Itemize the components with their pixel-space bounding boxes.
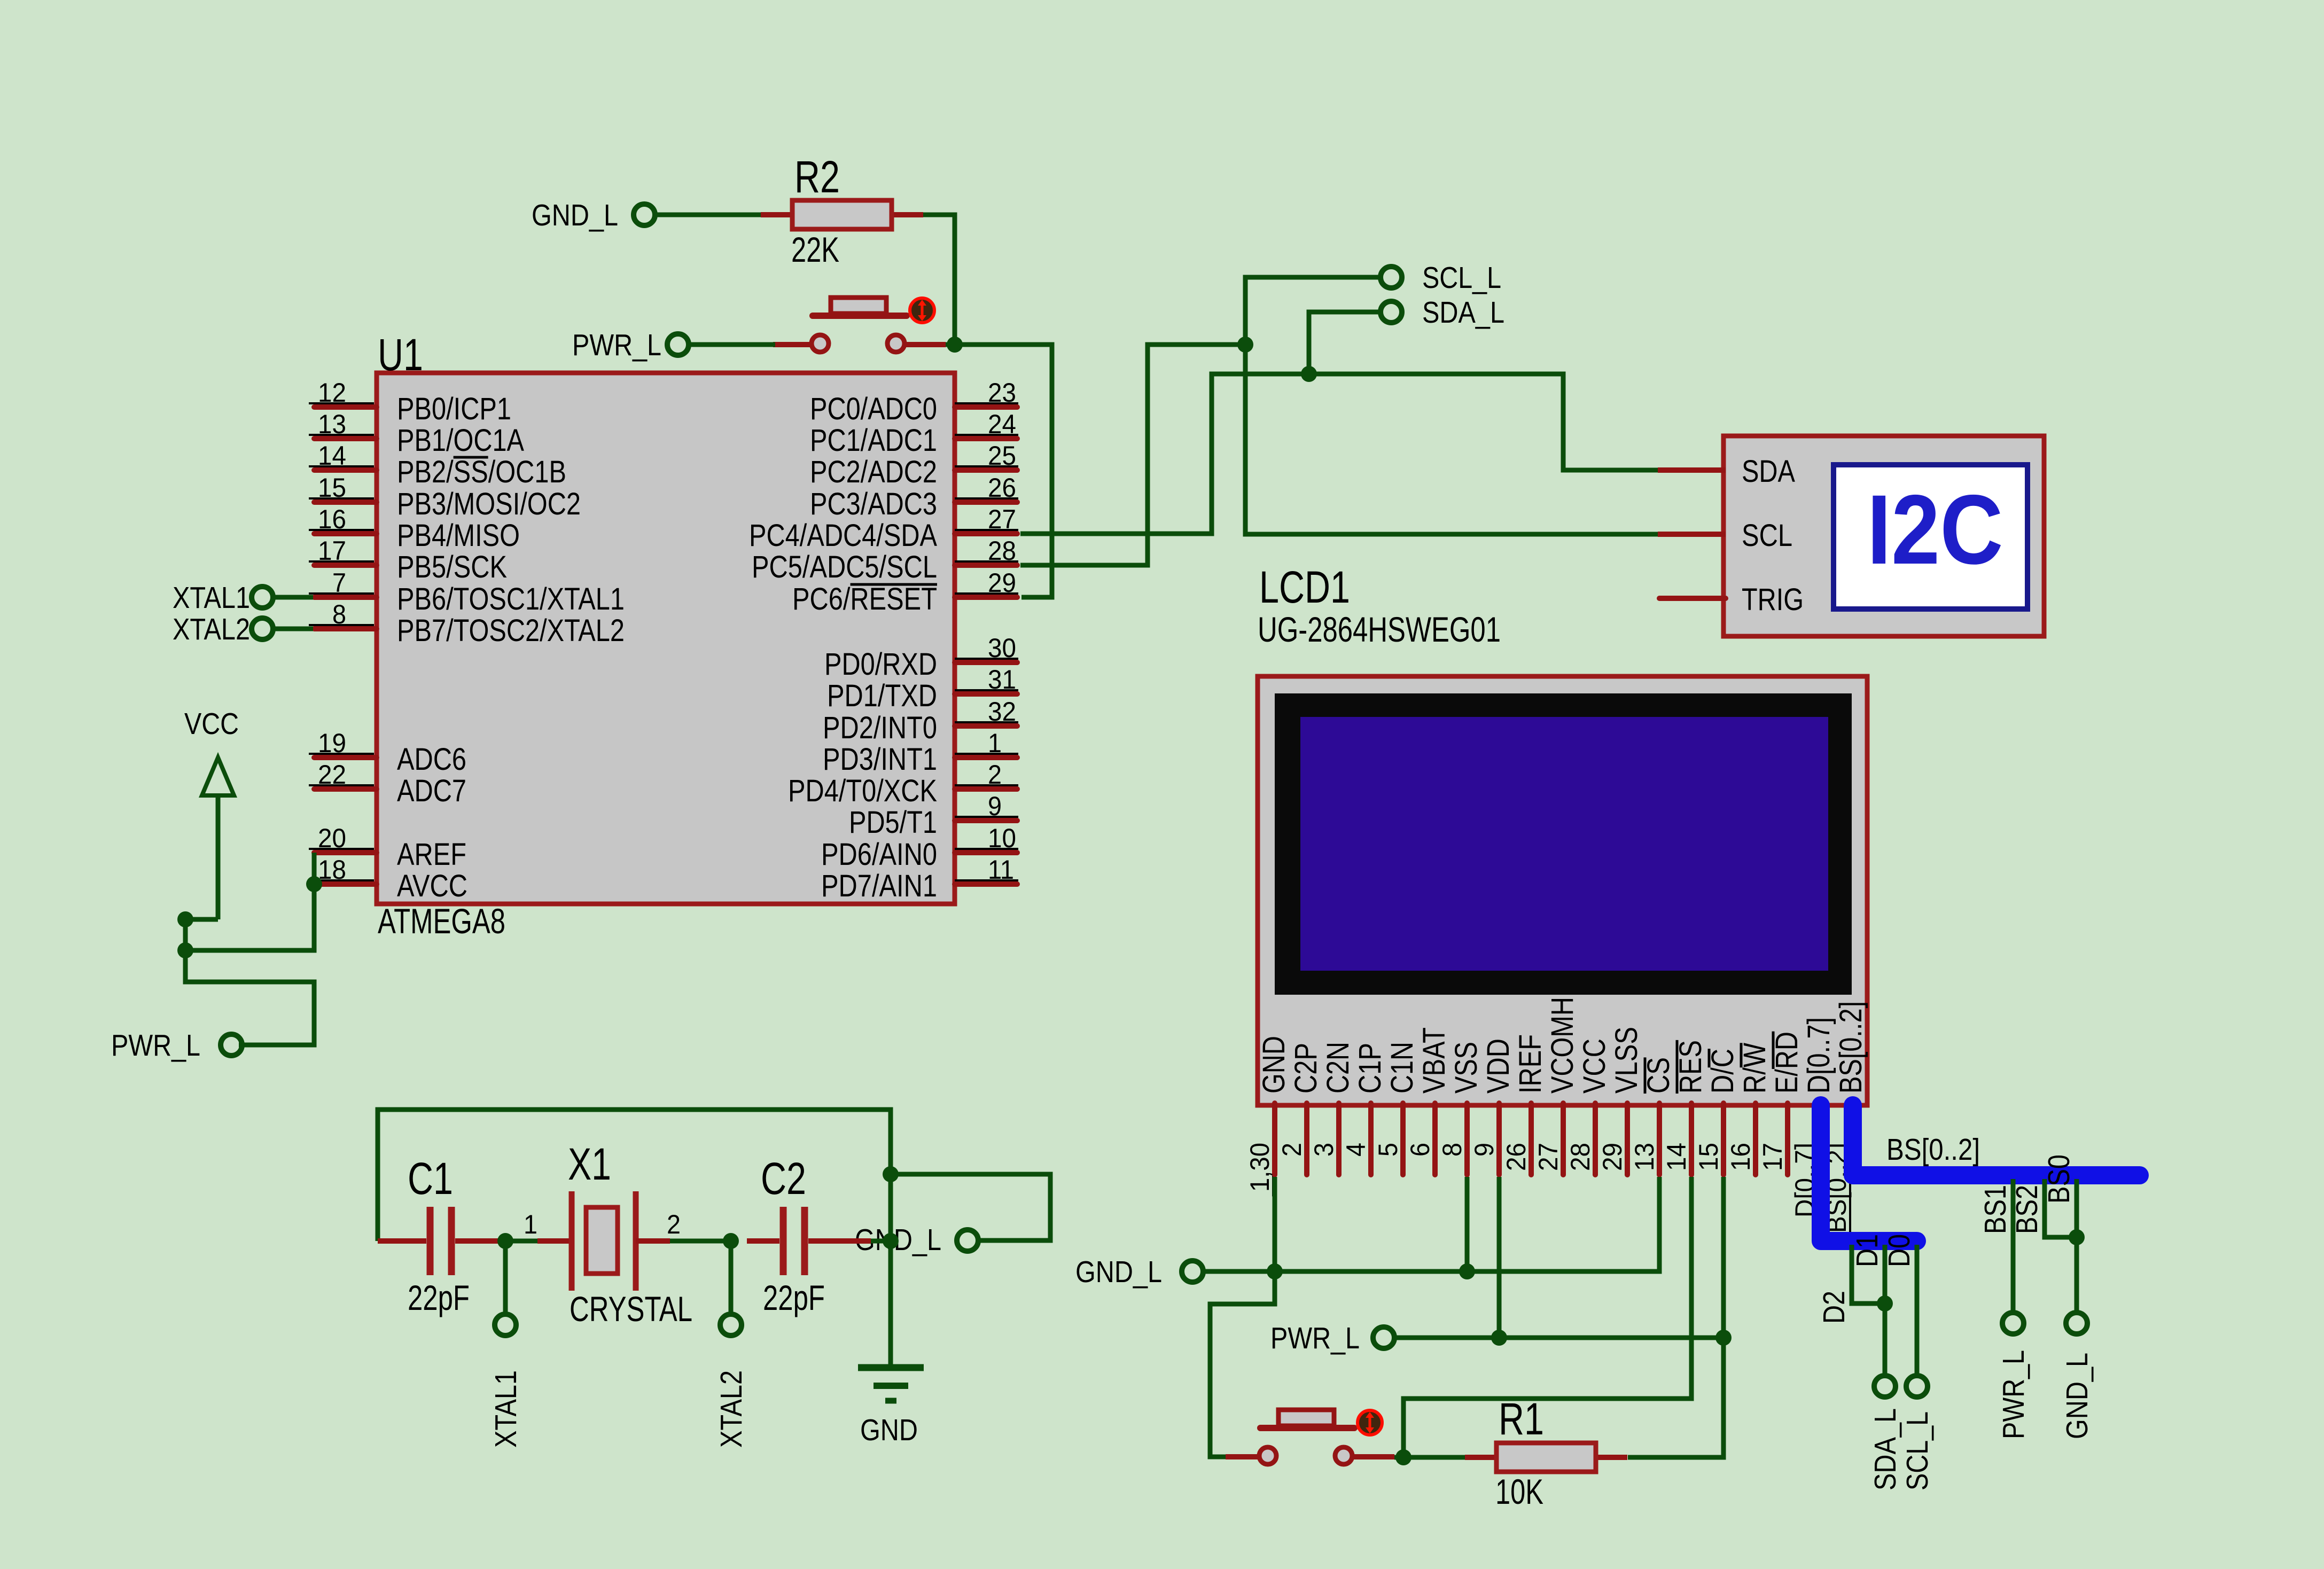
pin 22 ADC7 (U1 left) (309, 760, 466, 808)
svg-text:PB2/SS/OC1B: PB2/SS/OC1B (397, 455, 566, 489)
terminal PWR_L (LCD) (1373, 1327, 1394, 1348)
pin 9 PD5/T1 (U1 right) (849, 791, 1018, 840)
svg-text:PWR_L: PWR_L (1997, 1350, 2031, 1439)
svg-text:D/C: D/C (1705, 1049, 1740, 1094)
wire C2 to ground stem (871, 1239, 891, 1244)
bus BS[0..2] (1853, 1105, 2140, 1175)
pin stub button2 right (1352, 1454, 1394, 1459)
svg-text:PC2/ADC2: PC2/ADC2 (810, 455, 937, 489)
terminal GND_L (top left) (634, 204, 655, 225)
svg-text:22: 22 (318, 760, 346, 790)
wire reset node to pin29 RESET (946, 345, 1052, 597)
pin stub button left (773, 342, 812, 347)
pin 13 CS (LCD) (1629, 1057, 1676, 1175)
wire node to node2 (183, 919, 188, 950)
svg-text:PD1/TXD: PD1/TXD (827, 678, 937, 713)
svg-text:VCC: VCC (1577, 1039, 1612, 1094)
svg-text:D[0..7]: D[0..7] (1802, 1017, 1836, 1094)
svg-text:PB7/TOSC2/XTAL2: PB7/TOSC2/XTAL2 (397, 613, 625, 648)
svg-text:C1P: C1P (1353, 1043, 1387, 1094)
junction BS2-BS0 (2069, 1229, 2085, 1245)
junction gnd pin1,30 (1267, 1263, 1283, 1279)
pin 8 VSS (LCD) (1437, 1042, 1484, 1175)
svg-text:SDA: SDA (1742, 454, 1795, 489)
svg-text:XTAL2: XTAL2 (173, 612, 250, 646)
pin 17 PB5/SCK (U1 left) (309, 536, 507, 584)
svg-text:C1: C1 (408, 1153, 453, 1204)
svg-text:PWR_L: PWR_L (1270, 1321, 1360, 1355)
svg-text:PWR_L: PWR_L (111, 1028, 200, 1063)
pin 11 PD7/AIN1 (U1 right) (821, 855, 1018, 903)
svg-text:VLSS: VLSS (1609, 1027, 1644, 1094)
junction VCC node (177, 911, 193, 927)
svg-text:R2: R2 (794, 152, 840, 202)
junction node2 (177, 942, 193, 958)
pin 28 VCC (LCD) (1565, 1039, 1612, 1175)
svg-text:C2: C2 (761, 1153, 806, 1204)
pin 9 VDD (LCD) (1469, 1039, 1516, 1175)
wire XTAL2 to pin8 (272, 627, 313, 631)
pin 16 R/W (LCD) (1726, 1043, 1772, 1175)
svg-text:PD5/T1: PD5/T1 (849, 805, 937, 840)
svg-text:29: 29 (1597, 1143, 1627, 1171)
wire SCL_L drop (1245, 277, 1381, 345)
junction C2-XTAL2 (723, 1233, 739, 1249)
svg-text:PD3/INT1: PD3/INT1 (823, 742, 937, 777)
svg-text:VCOMH: VCOMH (1545, 997, 1580, 1094)
display LCD1 UG-2864HSWEG01 body (1258, 676, 1867, 1105)
pin 2 C2P (LCD) (1277, 1043, 1323, 1175)
crystal X1 (505, 1139, 692, 1329)
svg-text:PC0/ADC0: PC0/ADC0 (810, 392, 937, 426)
terminal SCL_L (top) (1381, 267, 1402, 288)
junction reset node (947, 337, 963, 353)
svg-text:VSS: VSS (1449, 1042, 1484, 1094)
svg-text:PB4/MISO: PB4/MISO (397, 518, 520, 553)
svg-text:ADC6: ADC6 (397, 742, 466, 777)
svg-text:2: 2 (1277, 1143, 1307, 1157)
svg-text:CS: CS (1641, 1057, 1676, 1094)
terminal PWR_L (lower left) (221, 1034, 242, 1056)
terminal PWR_L (top) (667, 334, 689, 355)
svg-text:10K: 10K (1495, 1472, 1543, 1511)
wire XTAL2 drop (729, 1241, 734, 1316)
junction D2-D1 (1877, 1295, 1893, 1312)
pin 8 PB7/TOSC2/XTAL2 (U1 left) (309, 599, 625, 648)
wire pin27 SDA net (1020, 374, 1658, 534)
wire BS0 tap (2075, 1179, 2079, 1313)
svg-text:25: 25 (988, 441, 1016, 471)
pin TRIG (I2C) (1659, 582, 1804, 617)
wire AREF-AVCC tie (312, 853, 317, 884)
terminal PWR_L (bottom right) (2002, 1313, 2024, 1334)
svg-text:1,30: 1,30 (1245, 1143, 1275, 1192)
svg-text:ADC7: ADC7 (397, 774, 466, 808)
svg-text:14: 14 (1662, 1143, 1691, 1171)
svg-text:19: 19 (318, 728, 346, 758)
wire power rail (1394, 1336, 1723, 1340)
svg-text:17: 17 (318, 536, 346, 566)
svg-text:32: 32 (988, 697, 1016, 727)
junction SDA (1301, 366, 1317, 382)
svg-text:10: 10 (988, 823, 1016, 853)
push button (LCD reset) (1260, 1425, 1354, 1431)
push button (reset, top) (813, 313, 907, 319)
svg-text:28: 28 (1565, 1143, 1595, 1171)
wire R2 to reset node (923, 215, 955, 345)
svg-text:8: 8 (332, 599, 346, 629)
svg-text:22K: 22K (791, 230, 839, 269)
svg-text:U1: U1 (378, 330, 423, 380)
svg-text:PC4/ADC4/SDA: PC4/ADC4/SDA (749, 518, 937, 553)
resistor R1 10K (1465, 1455, 1496, 1460)
capacitor C2 22pF (747, 1153, 871, 1317)
pin 5 C1N (LCD) (1373, 1042, 1420, 1175)
pin 15 PB3/MOSI/OC2 (U1 left) (309, 473, 581, 521)
svg-text:AVCC: AVCC (397, 869, 467, 903)
pin D[0..7] D[0..7] (LCD) (1790, 1017, 1836, 1222)
terminal XTAL2 (left) (252, 618, 273, 639)
wire pin15 D/C drop (1628, 1177, 1723, 1457)
wire BS1 tap (2011, 1179, 2016, 1313)
pin 20 AREF (U1 left) (309, 823, 466, 872)
pin 15 D/C (LCD) (1694, 1049, 1740, 1175)
wire VCC to node (185, 917, 218, 922)
svg-text:SDA_L: SDA_L (1868, 1408, 1902, 1490)
pin 28 PC5/ADC5/SCL (U1 right) (752, 536, 1018, 584)
svg-text:VCC: VCC (184, 707, 239, 741)
power symbol VCC (184, 707, 239, 919)
svg-text:GND_L: GND_L (2060, 1353, 2094, 1439)
svg-text:27: 27 (988, 504, 1016, 534)
wire AVCC to node2 (185, 884, 314, 950)
svg-text:IREF: IREF (1513, 1034, 1548, 1094)
pin 2 PD4/T0/XCK (U1 right) (788, 760, 1018, 808)
wire GND_L to R2 (654, 213, 761, 217)
pin 13 PB1/OC1A (U1 left) (309, 409, 524, 458)
pin 32 PD2/INT0 (U1 right) (823, 697, 1018, 745)
terminal SDA_L (bottom) (1874, 1376, 1896, 1397)
terminal GND_L (bottom right) (2066, 1313, 2087, 1334)
wire pin1,30 drop (1273, 1177, 1277, 1271)
wire XTAL1 to pin7 (272, 595, 313, 600)
svg-text:BS[0..2]: BS[0..2] (1834, 1001, 1868, 1094)
svg-text:GND: GND (860, 1413, 918, 1447)
svg-text:15: 15 (318, 473, 346, 503)
module I2C body (1723, 436, 2044, 636)
svg-text:9: 9 (988, 791, 1002, 821)
terminal XTAL1 (left) (252, 587, 273, 608)
wire pin14 RES to reset button (1403, 1177, 1691, 1457)
pin 18 AVCC (U1 left) (309, 855, 467, 903)
svg-text:18: 18 (318, 855, 346, 885)
pin 27 PC4/ADC4/SDA (U1 right) (749, 504, 1018, 553)
pin 17 E/RD (LCD) (1758, 1032, 1804, 1175)
svg-text:VBAT: VBAT (1417, 1027, 1452, 1094)
svg-text:22pF: 22pF (763, 1278, 825, 1317)
svg-text:SCL_L: SCL_L (1900, 1411, 1935, 1490)
pin 24 PC1/ADC1 (U1 right) (810, 409, 1018, 458)
svg-text:BS[0..2]: BS[0..2] (1886, 1133, 1980, 1167)
svg-text:1: 1 (988, 728, 1002, 758)
svg-text:GND_L: GND_L (532, 198, 618, 232)
svg-text:1: 1 (524, 1209, 537, 1239)
junction pwr end (1715, 1330, 1732, 1346)
svg-text:PD7/AIN1: PD7/AIN1 (821, 869, 937, 903)
svg-text:16: 16 (1726, 1143, 1756, 1171)
wire GND_L loop (891, 1174, 1050, 1240)
svg-text:23: 23 (988, 378, 1016, 408)
pin 6 VBAT (LCD) (1405, 1027, 1452, 1175)
terminal SDA_L (top) (1381, 301, 1402, 323)
svg-text:26: 26 (988, 473, 1016, 503)
svg-text:28: 28 (988, 536, 1016, 566)
svg-text:RES: RES (1673, 1040, 1708, 1094)
svg-text:PD4/T0/XCK: PD4/T0/XCK (788, 774, 937, 808)
svg-text:AREF: AREF (397, 837, 466, 872)
pin stub button right (904, 342, 946, 347)
junction C1-XTAL1 (497, 1233, 513, 1249)
svg-text:15: 15 (1694, 1143, 1723, 1171)
svg-text:4: 4 (1341, 1143, 1371, 1157)
svg-text:C2P: C2P (1289, 1043, 1323, 1094)
svg-text:20: 20 (318, 823, 346, 853)
capacitor C1 22pF (378, 1153, 505, 1317)
svg-text:9: 9 (1469, 1143, 1499, 1157)
svg-text:BS1: BS1 (1978, 1185, 2013, 1234)
svg-text:XTAL2: XTAL2 (714, 1370, 748, 1448)
pin 1,30 GND (LCD) (1245, 1036, 1291, 1196)
wire D2 tap (1852, 1245, 1882, 1303)
ground symbol GND (858, 1368, 924, 1447)
pin 16 PB4/MISO (U1 left) (309, 504, 520, 553)
pin 26 IREF (LCD) (1501, 1034, 1548, 1175)
wire pin28 SCL riser (1020, 345, 1245, 565)
terminal XTAL2 (bottom) (720, 1314, 742, 1336)
svg-text:BS0: BS0 (2042, 1154, 2076, 1204)
junction AVCC (306, 876, 322, 892)
svg-text:PB1/OC1A: PB1/OC1A (397, 423, 524, 458)
wire D1 tap (1883, 1245, 1888, 1376)
terminal SCL_L (bottom) (1906, 1376, 1928, 1397)
svg-text:2: 2 (988, 760, 1002, 790)
svg-text:27: 27 (1533, 1143, 1563, 1171)
wire pin9 VDD drop (1497, 1177, 1502, 1338)
svg-text:3: 3 (1309, 1143, 1339, 1157)
terminal GND_L (LCD) (1182, 1261, 1203, 1282)
svg-text:12: 12 (318, 378, 346, 408)
junction C2 gnd (883, 1233, 899, 1249)
svg-text:E/RD: E/RD (1769, 1032, 1804, 1094)
pin 29 VLSS (LCD) (1597, 1027, 1644, 1175)
svg-text:13: 13 (318, 409, 346, 439)
wire BS2 tap (2045, 1179, 2073, 1237)
pin 3 C2N (LCD) (1309, 1042, 1355, 1175)
svg-text:PD0/RXD: PD0/RXD (824, 647, 937, 682)
pin 10 PD6/AIN0 (U1 right) (821, 823, 1018, 872)
svg-text:6: 6 (1405, 1143, 1435, 1157)
svg-text:5: 5 (1373, 1143, 1403, 1157)
svg-text:17: 17 (1758, 1143, 1788, 1171)
pin SDA (I2C) (1658, 454, 1795, 489)
terminal XTAL1 (bottom) (495, 1314, 516, 1336)
pin 12 PB0/ICP1 (U1 left) (309, 378, 511, 426)
wire PWR_L to button (688, 342, 775, 347)
pin 14 RES (LCD) (1662, 1040, 1708, 1175)
svg-text:R/W: R/W (1737, 1043, 1772, 1094)
pin 29 PC6/RESET (U1 right) (792, 568, 1018, 616)
wire node2 to PWR_L (185, 950, 314, 1045)
junction button2-R1 (1395, 1449, 1411, 1465)
svg-text:11: 11 (988, 855, 1014, 885)
svg-text:PB5/SCK: PB5/SCK (397, 550, 507, 584)
IC U1 ATMEGA8 body (377, 373, 955, 904)
svg-text:29: 29 (988, 568, 1016, 598)
svg-text:30: 30 (988, 633, 1016, 663)
svg-text:13: 13 (1629, 1143, 1659, 1171)
svg-text:PD2/INT0: PD2/INT0 (823, 711, 937, 745)
wire SCL to I2C (1245, 345, 1658, 534)
pin 1 PD3/INT1 (U1 right) (823, 728, 1018, 777)
svg-text:UG-2864HSWEG01: UG-2864HSWEG01 (1258, 610, 1501, 649)
junction crystal gnd top (883, 1166, 899, 1182)
pin 30 PD0/RXD (U1 right) (824, 633, 1018, 682)
pin 4 C1P (LCD) (1341, 1043, 1387, 1175)
pin BS[0..2] BS[0..2] (LCD) (1822, 1001, 1868, 1237)
svg-text:C1N: C1N (1385, 1042, 1420, 1094)
I2C logo box (1834, 465, 2027, 609)
svg-text:VDD: VDD (1481, 1039, 1516, 1094)
svg-text:LCD1: LCD1 (1259, 562, 1350, 612)
svg-text:R1: R1 (1499, 1394, 1544, 1444)
svg-text:I2C: I2C (1867, 475, 2003, 585)
svg-text:ATMEGA8: ATMEGA8 (378, 901, 505, 941)
wire X1 to C2 (670, 1239, 731, 1244)
svg-text:PB3/MOSI/OC2: PB3/MOSI/OC2 (397, 487, 581, 521)
svg-text:GND: GND (1257, 1036, 1291, 1094)
wire pin8 VSS drop (1465, 1177, 1470, 1271)
wire LCD ground rail (1203, 1177, 1659, 1271)
wire button2 to R1 (1394, 1455, 1465, 1460)
pin 14 PB2/SS/OC1B (U1 left) (309, 441, 566, 489)
svg-text:2: 2 (667, 1209, 681, 1239)
svg-text:BS2: BS2 (2010, 1185, 2044, 1234)
svg-text:26: 26 (1501, 1143, 1531, 1171)
svg-text:PC3/ADC3: PC3/ADC3 (810, 487, 937, 521)
wire crystal top loop (378, 1110, 891, 1241)
pin 31 PD1/TXD (U1 right) (827, 665, 1018, 713)
svg-text:XTAL1: XTAL1 (489, 1370, 523, 1448)
svg-text:31: 31 (988, 665, 1016, 694)
wire ground stem (888, 1174, 893, 1367)
svg-text:D0: D0 (1882, 1234, 1916, 1267)
svg-text:D1: D1 (1850, 1234, 1884, 1267)
svg-text:XTAL1: XTAL1 (173, 581, 250, 615)
junction pwr pin9 (1491, 1330, 1507, 1346)
svg-text:X1: X1 (568, 1139, 611, 1189)
pin 26 PC3/ADC3 (U1 right) (810, 473, 1018, 521)
pin 27 VCOMH (LCD) (1533, 997, 1580, 1175)
wire XTAL1 drop (503, 1241, 508, 1316)
svg-text:PWR_L: PWR_L (572, 328, 661, 362)
svg-text:22pF: 22pF (408, 1278, 470, 1317)
svg-text:SCL: SCL (1742, 518, 1792, 553)
LCD screen bezel (1275, 693, 1852, 995)
LCD screen (1300, 717, 1828, 971)
pin SCL (I2C) (1658, 518, 1792, 553)
junction gnd pin8 (1459, 1263, 1475, 1279)
pin 19 ADC6 (U1 left) (309, 728, 466, 777)
pin 7 PB6/TOSC1/XTAL1 (U1 left) (309, 568, 625, 616)
svg-text:24: 24 (988, 409, 1016, 439)
svg-text:GND_L: GND_L (1075, 1255, 1162, 1289)
wire SDA_L drop (1309, 312, 1381, 374)
junction SCL (1237, 337, 1253, 353)
svg-text:CRYSTAL: CRYSTAL (570, 1289, 692, 1329)
pin 25 PC2/ADC2 (U1 right) (810, 441, 1018, 489)
resistor R2 22K (761, 212, 792, 217)
svg-text:SDA_L: SDA_L (1422, 295, 1504, 330)
svg-text:14: 14 (318, 441, 346, 471)
svg-text:7: 7 (332, 568, 346, 598)
svg-text:16: 16 (318, 504, 346, 534)
svg-text:PB6/TOSC1/XTAL1: PB6/TOSC1/XTAL1 (397, 582, 625, 616)
bus D[0..7] (1821, 1105, 1917, 1241)
wire gnd to button (1210, 1271, 1275, 1457)
svg-text:C2N: C2N (1321, 1042, 1355, 1094)
svg-text:PD6/AIN0: PD6/AIN0 (821, 837, 937, 872)
svg-text:PB0/ICP1: PB0/ICP1 (397, 392, 511, 426)
pin 23 PC0/ADC0 (U1 right) (810, 378, 1018, 426)
svg-text:PC6/RESET: PC6/RESET (792, 582, 937, 616)
svg-text:TRIG: TRIG (1742, 582, 1804, 617)
terminal GND_L (crystal) (957, 1230, 978, 1251)
svg-text:PC1/ADC1: PC1/ADC1 (810, 423, 937, 458)
svg-text:D2: D2 (1817, 1291, 1851, 1324)
wire D0 tap (1915, 1245, 1920, 1376)
svg-text:PC5/ADC5/SCL: PC5/ADC5/SCL (752, 550, 937, 584)
svg-text:8: 8 (1437, 1143, 1467, 1157)
svg-text:SCL_L: SCL_L (1422, 261, 1501, 295)
pin stub button2 left (1226, 1454, 1260, 1459)
